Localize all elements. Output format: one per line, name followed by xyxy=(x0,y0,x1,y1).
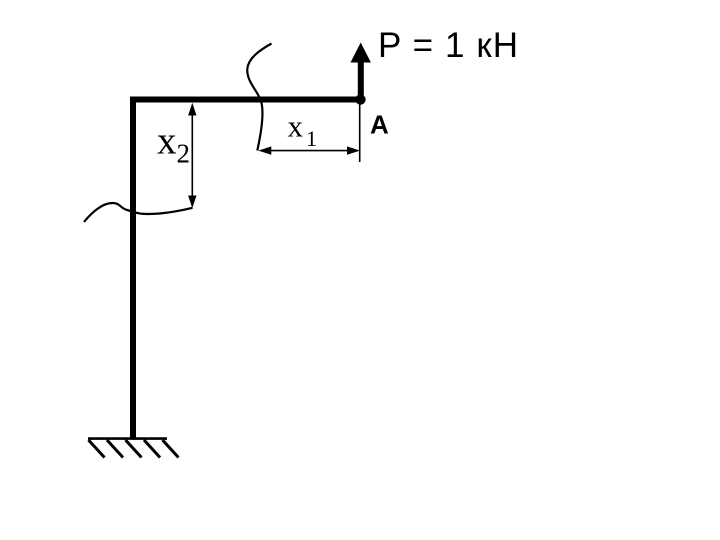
support hatch 1 xyxy=(89,440,105,458)
svg-text:P = 1 кН: P = 1 кН xyxy=(378,26,519,65)
node A dot xyxy=(355,94,365,104)
support hatch 5 xyxy=(163,440,179,458)
support hatch 3 xyxy=(126,440,142,458)
ground line of fixed support xyxy=(88,437,167,440)
dimension x2 bottom arrowhead xyxy=(188,196,196,209)
cut squiggle through beam (top) xyxy=(247,44,271,151)
svg-text:x: x xyxy=(157,120,177,163)
dimension x2 top arrowhead xyxy=(188,103,196,116)
svg-text:2: 2 xyxy=(177,139,191,169)
svg-text:x: x xyxy=(288,109,304,144)
force arrow P head xyxy=(351,43,371,63)
cut squiggle through column (left) xyxy=(84,203,193,222)
beam (horizontal member) xyxy=(130,97,363,103)
support hatch 4 xyxy=(144,440,160,458)
dimension line x2 xyxy=(191,112,193,200)
dimension line x1 xyxy=(268,150,351,152)
dimension x1 right arrowhead xyxy=(347,146,360,154)
column (vertical member) xyxy=(130,97,136,439)
svg-text:1: 1 xyxy=(306,126,317,151)
svg-text:A: A xyxy=(370,110,389,140)
force arrow P shaft xyxy=(358,60,364,100)
support hatch 2 xyxy=(107,440,123,458)
extension line below node A xyxy=(359,104,361,162)
dimension x1 left arrowhead xyxy=(258,146,271,154)
